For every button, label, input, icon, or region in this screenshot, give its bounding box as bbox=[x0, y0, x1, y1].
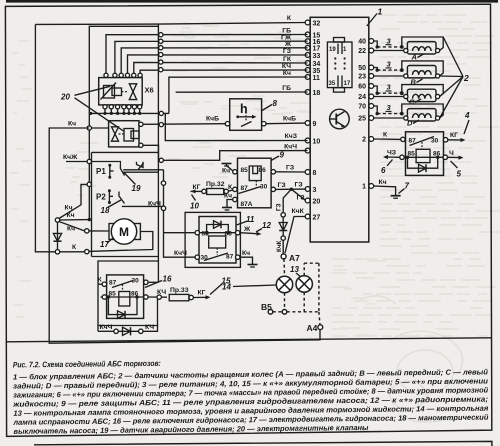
svg-text:ЧЗ: ЧЗ bbox=[387, 149, 396, 156]
svg-text:9: 9 bbox=[313, 121, 317, 128]
wire KchB: valve assembly to level sensor 8 bbox=[143, 123, 227, 126]
relay16 switch bbox=[112, 281, 133, 288]
wire KchK pin27 to A7 bbox=[285, 217, 305, 254]
svg-text:10: 10 bbox=[190, 202, 199, 211]
svg-text:КЧ: КЧ bbox=[145, 324, 154, 331]
wire Ch arrow 5 bbox=[448, 156, 462, 158]
svg-text:30: 30 bbox=[431, 137, 439, 144]
node A7 bbox=[281, 254, 286, 259]
relay3 terminals bbox=[401, 137, 405, 141]
svg-text:КГ: КГ bbox=[198, 290, 206, 297]
svg-text:3: 3 bbox=[387, 83, 392, 92]
label 8 pointer bbox=[262, 105, 272, 111]
label 15 pointer bbox=[210, 284, 223, 295]
block1 pin x left bbox=[305, 148, 310, 153]
block1 pin 18 left bbox=[305, 90, 310, 95]
svg-text:КЧ: КЧ bbox=[282, 63, 291, 70]
relay 16 enclosure bbox=[98, 261, 158, 284]
svg-text:Кч: Кч bbox=[242, 250, 250, 257]
wire ГЖ from X6 to block1 bbox=[115, 41, 308, 76]
svg-text:ГЗ: ГЗ bbox=[278, 182, 286, 189]
wire Zh arrow from 86 bbox=[240, 233, 259, 234]
svg-text:87А: 87А bbox=[241, 201, 253, 208]
svg-text:ГЗ: ГЗ bbox=[295, 182, 303, 189]
label 1 pointer bbox=[367, 14, 377, 27]
lower solenoid valve assembly (20) bbox=[109, 121, 139, 147]
svg-text:34: 34 bbox=[313, 61, 321, 68]
relay 16 box bbox=[107, 275, 144, 319]
svg-text:КчЧ: КчЧ bbox=[100, 324, 113, 331]
top rule bbox=[6, 0, 498, 3]
svg-text:4: 4 bbox=[464, 111, 470, 120]
svg-text:К: К bbox=[72, 244, 77, 251]
wire KchCh vertical to relay 11 bbox=[164, 170, 198, 257]
svg-text:Р1: Р1 bbox=[96, 167, 106, 176]
relay 11 box bbox=[199, 217, 236, 264]
label 9 pointer bbox=[271, 156, 279, 161]
wire KchB to pin 9 bbox=[266, 122, 305, 125]
block1 pin 1 right bbox=[369, 184, 374, 189]
svg-text:А: А bbox=[411, 53, 417, 62]
svg-text:2: 2 bbox=[463, 73, 469, 83]
block 1: ABS control unit bbox=[310, 17, 369, 242]
wire 85 to KchCh vertical bbox=[164, 232, 196, 234]
svg-text:ГЗ: ГЗ bbox=[283, 48, 291, 55]
wire KG arrow 4 bbox=[448, 139, 463, 141]
svg-text:Ж: Ж bbox=[243, 226, 251, 233]
wire K to motor box bbox=[60, 251, 86, 253]
svg-text:1: 1 bbox=[343, 47, 347, 53]
connector on left bus y184 bbox=[87, 182, 91, 186]
X6 bottom terminals and junction bus bbox=[103, 105, 107, 109]
connector symbol inside block 1 bbox=[327, 42, 352, 88]
node A4 bbox=[318, 325, 323, 330]
wire ChZ arrow 6 bbox=[385, 156, 400, 158]
GZ branch to pin 20 bbox=[291, 189, 305, 200]
block1 pin 23 right bbox=[369, 74, 374, 79]
wire KchZ to pin 10 bbox=[165, 113, 307, 140]
svg-text:35: 35 bbox=[313, 68, 321, 75]
block1 pin 2 right bbox=[369, 137, 374, 142]
svg-text:86: 86 bbox=[259, 167, 267, 174]
label 18 pointer bbox=[108, 200, 122, 208]
wire ГЗ from X6 to block1 bbox=[128, 55, 308, 77]
wire K pin2 to relay3 bbox=[374, 138, 401, 140]
block1 pin 22 right bbox=[369, 48, 374, 53]
top link wire y26 bbox=[89, 26, 158, 113]
relay3 85-86 wire bbox=[404, 156, 445, 158]
Kch branch to motor bbox=[59, 222, 85, 231]
label 17 pointer bbox=[107, 238, 113, 243]
relay16 coil bbox=[119, 292, 130, 307]
relay9 switch bbox=[239, 187, 262, 194]
terminal KchZh on box edge bbox=[92, 162, 121, 165]
svg-text:1: 1 bbox=[362, 184, 366, 191]
relay3 switch bbox=[410, 137, 435, 146]
block1 pin 8 left bbox=[305, 170, 310, 175]
pressure switch contact 19 bbox=[137, 162, 144, 168]
wire GB to pin 18 bbox=[176, 91, 308, 93]
svg-text:ГБ: ГБ bbox=[282, 85, 291, 92]
vertical wire x158 (K feed down to relay 16) bbox=[157, 24, 159, 152]
relay 11 enclosure bbox=[185, 212, 240, 267]
diode on wire C bbox=[57, 222, 59, 249]
svg-text:60: 60 bbox=[358, 84, 366, 91]
svg-text:М: М bbox=[119, 225, 129, 239]
relay16 terminals bbox=[102, 282, 106, 286]
label 11 pointer bbox=[237, 221, 248, 225]
svg-text:23: 23 bbox=[358, 74, 366, 81]
svg-text:87: 87 bbox=[109, 280, 117, 287]
svg-text:К: К bbox=[383, 132, 388, 139]
svg-text:87: 87 bbox=[226, 253, 234, 260]
svg-text:3: 3 bbox=[387, 103, 392, 112]
svg-text:Кч: Кч bbox=[68, 121, 76, 128]
svg-text:85: 85 bbox=[241, 167, 249, 174]
block1 pin 20 left bbox=[305, 198, 310, 203]
svg-text:11: 11 bbox=[246, 215, 255, 224]
svg-text:К: К bbox=[98, 277, 103, 284]
svg-text:5: 5 bbox=[457, 170, 462, 179]
svg-text:50: 50 bbox=[358, 65, 366, 72]
wire Kch to pin 11 bbox=[169, 77, 308, 113]
svg-text:32: 32 bbox=[313, 20, 321, 27]
svg-text:17: 17 bbox=[344, 81, 351, 87]
svg-text:8: 8 bbox=[313, 170, 317, 177]
label 12 pointer bbox=[256, 229, 262, 233]
GZ vertical chain to A7 bbox=[283, 189, 291, 254]
svg-text:Кч: Кч bbox=[283, 70, 291, 77]
svg-text:18: 18 bbox=[101, 206, 110, 215]
svg-text:КчЗ: КчЗ bbox=[285, 133, 297, 140]
relay11 terminals bbox=[195, 231, 199, 235]
svg-text:25: 25 bbox=[358, 116, 366, 123]
svg-text:6: 6 bbox=[381, 166, 386, 175]
svg-text:17: 17 bbox=[100, 240, 109, 249]
caption text bbox=[12, 355, 489, 436]
svg-text:10: 10 bbox=[313, 138, 321, 145]
schematic/caption separator bbox=[7, 338, 491, 342]
block1 pin 11 left bbox=[305, 75, 310, 80]
svg-text:С: С bbox=[409, 98, 415, 107]
block1 pin 27 left bbox=[305, 214, 310, 219]
relay11 coil bbox=[209, 236, 226, 248]
svg-text:К: К bbox=[287, 15, 292, 22]
label 5 pointer bbox=[451, 161, 458, 168]
motor right return wire bbox=[88, 232, 153, 252]
svg-text:ГЗ: ГЗ bbox=[297, 195, 305, 202]
relay16 wire 85-86 bbox=[101, 296, 147, 298]
svg-text:Пр.32: Пр.32 bbox=[206, 181, 225, 188]
svg-text:Ж: Ж bbox=[284, 41, 292, 48]
relay3 coil bbox=[416, 149, 430, 162]
svg-text:35: 35 bbox=[329, 81, 336, 87]
left vertical wire A bbox=[35, 24, 56, 251]
connector Kch on left bus bbox=[87, 126, 91, 130]
svg-text:Кч: Кч bbox=[222, 168, 230, 175]
svg-text:19: 19 bbox=[329, 47, 336, 53]
relay9 terminals bbox=[233, 170, 237, 174]
relay9 coil bbox=[249, 166, 261, 181]
svg-text:9: 9 bbox=[280, 151, 285, 160]
svg-text:7: 7 bbox=[405, 182, 410, 191]
Y junction node bbox=[55, 218, 59, 222]
X6 valve symbol bbox=[122, 91, 129, 93]
block1 pin 9 left bbox=[305, 121, 310, 126]
svg-text:КчК: КчК bbox=[292, 208, 305, 215]
dashed lamp wiring bbox=[283, 259, 286, 276]
relay16 diode bottom bbox=[108, 297, 137, 315]
label 16 pointer bbox=[145, 281, 162, 288]
block1 pin 60 right bbox=[369, 84, 374, 89]
protection relay 9 box bbox=[238, 158, 272, 208]
svg-text:Х6: Х6 bbox=[145, 86, 154, 95]
wire KchCh to block1 bbox=[143, 145, 308, 160]
relay11 switch bbox=[204, 253, 228, 261]
wheel speed sensor С bbox=[374, 86, 378, 93]
wire GZ 30 to junction bbox=[276, 188, 307, 190]
block1 pin 40 right bbox=[369, 39, 374, 44]
svg-text:КчЖ: КчЖ bbox=[63, 154, 78, 161]
level sensor 8 (h) bbox=[230, 99, 262, 131]
svg-text:18: 18 bbox=[313, 90, 321, 97]
diode in GZ chain bbox=[279, 223, 287, 231]
svg-text:8: 8 bbox=[273, 99, 278, 108]
svg-text:12: 12 bbox=[262, 221, 271, 230]
lamp 13 bbox=[296, 276, 312, 292]
svg-text:Рис. 7.2. Схема соединений АБ: Рис. 7.2. Схема соединений АБС тормозов: bbox=[13, 359, 161, 370]
wire B vertical (Kch loop to bottom) bbox=[49, 128, 320, 343]
node B5 bbox=[268, 310, 273, 315]
svg-text:19: 19 bbox=[132, 184, 141, 193]
wire Kch pin1 + ground 7 bbox=[374, 186, 396, 196]
svg-text:33: 33 bbox=[313, 53, 321, 60]
block1 pin 70 right bbox=[369, 104, 374, 109]
svg-text:20: 20 bbox=[313, 198, 321, 205]
svg-text:3: 3 bbox=[387, 60, 392, 69]
wheel speed sensor А bbox=[374, 41, 378, 47]
svg-text:17: 17 bbox=[313, 46, 321, 53]
block1 pin 33 left bbox=[305, 53, 310, 58]
svg-text:КчК: КчК bbox=[276, 241, 283, 252]
svg-text:1: 1 bbox=[378, 7, 383, 17]
svg-text:КчБ: КчБ bbox=[283, 115, 296, 122]
svg-text:КЧ: КЧ bbox=[157, 289, 166, 296]
relay11 diode top bbox=[207, 225, 229, 233]
svg-text:Кч: Кч bbox=[379, 179, 387, 186]
P1 output pair wires bbox=[123, 169, 163, 171]
wire K to pin 32 bbox=[35, 23, 305, 25]
relay9 ground at 85 bbox=[227, 164, 234, 172]
svg-text:3: 3 bbox=[387, 36, 392, 45]
block1 pin 35 left bbox=[305, 68, 310, 73]
svg-text:14: 14 bbox=[222, 283, 231, 292]
block1 pin 50 right bbox=[369, 65, 374, 70]
block1 pin 3 left bbox=[305, 187, 310, 192]
block1 pin 16 left bbox=[305, 39, 310, 44]
wire KG arrow left of fuse bbox=[191, 190, 202, 192]
wire 30 to vertical bbox=[148, 281, 158, 283]
svg-text:КчЧ: КчЧ bbox=[148, 201, 161, 208]
next figure frame top (below) bbox=[34, 441, 492, 446]
relay11 wire 85-86 with dots bbox=[198, 232, 238, 234]
wire Kch + ground from 87 bbox=[240, 257, 253, 264]
label 7 pointer bbox=[399, 189, 405, 194]
connector KchZh on left bus bbox=[87, 159, 91, 163]
block1 pin 24 right bbox=[369, 94, 374, 99]
motor 17 bbox=[109, 224, 140, 240]
block1 pin 25 right bbox=[369, 116, 374, 121]
svg-text:Пр.33: Пр.33 bbox=[170, 287, 189, 294]
power relay 3 box bbox=[406, 132, 444, 176]
svg-text:КчБ: КчБ bbox=[206, 116, 219, 123]
wire КЧ from X6 to block1 bbox=[140, 70, 308, 77]
svg-text:КГ: КГ bbox=[450, 132, 458, 139]
relay9 87A ground bbox=[227, 200, 233, 208]
svg-text:ГЗ: ГЗ bbox=[286, 164, 294, 171]
wire ГБ from X6 to block1 bbox=[106, 35, 308, 77]
svg-text:А4: А4 bbox=[307, 323, 318, 333]
wire GZ 86 to pin 8 bbox=[276, 171, 306, 173]
svg-text:Ч: Ч bbox=[449, 150, 454, 157]
svg-text:2: 2 bbox=[362, 137, 366, 144]
svg-text:40: 40 bbox=[358, 39, 366, 46]
Kch branch up-right bbox=[59, 184, 87, 218]
wire KCh + fuse Pr33 bbox=[148, 296, 167, 298]
svg-text:h: h bbox=[240, 102, 248, 116]
wheel speed sensor D bbox=[374, 106, 378, 114]
wire Ж from X6 to block1 bbox=[121, 48, 307, 77]
svg-text:В5: В5 bbox=[261, 302, 272, 312]
svg-text:16: 16 bbox=[163, 275, 172, 284]
svg-text:3: 3 bbox=[313, 187, 317, 194]
svg-text:22: 22 bbox=[358, 48, 366, 55]
relay3 diode bbox=[408, 157, 438, 168]
label 2 fan bbox=[443, 37, 463, 77]
label 10 pointer bbox=[192, 195, 196, 201]
lamp 14 bbox=[276, 276, 292, 292]
X6 connector block (solenoid valves 20) bbox=[99, 78, 143, 105]
wire ГК from X6 to block1 bbox=[134, 62, 308, 76]
svg-text:13: 13 bbox=[290, 265, 299, 274]
bottom KchCh diode KCh bbox=[97, 326, 99, 332]
wire K to 87 bbox=[98, 283, 102, 285]
block1 pin 15 left bbox=[305, 32, 310, 37]
svg-text:ГК: ГК bbox=[283, 56, 292, 63]
svg-text:20: 20 bbox=[60, 93, 70, 102]
block1 pin 17 left bbox=[305, 45, 310, 50]
svg-text:А7: А7 bbox=[289, 253, 300, 263]
label 19 pointer bbox=[124, 173, 136, 185]
X6 solenoid symbol bbox=[104, 86, 115, 99]
transistor symbol inside block 1 bbox=[330, 109, 350, 129]
svg-text:КГ: КГ bbox=[193, 184, 201, 191]
svg-text:Р2: Р2 bbox=[96, 193, 106, 202]
block1 pin 34 left bbox=[305, 61, 310, 66]
left bus vertical x89 bbox=[88, 113, 90, 219]
pump assembly enclosure bbox=[92, 151, 159, 153]
svg-text:11: 11 bbox=[313, 75, 321, 82]
block1 pin 32 left bbox=[305, 20, 310, 25]
svg-text:27: 27 bbox=[313, 214, 321, 221]
svg-text:70: 70 bbox=[358, 104, 366, 111]
svg-text:D: D bbox=[407, 119, 413, 128]
svg-text:24: 24 bbox=[358, 94, 366, 101]
svg-text:КчЧ: КчЧ bbox=[284, 143, 297, 150]
wheel speed sensor В bbox=[374, 68, 378, 71]
label 4 pointer bbox=[464, 120, 469, 134]
svg-text:ГЗ: ГЗ bbox=[276, 203, 283, 211]
svg-text:Кч: Кч bbox=[65, 204, 73, 211]
block1 pin 10 left bbox=[305, 138, 310, 143]
svg-text:Кч: Кч bbox=[67, 225, 75, 232]
label 6 pointer bbox=[387, 160, 393, 167]
